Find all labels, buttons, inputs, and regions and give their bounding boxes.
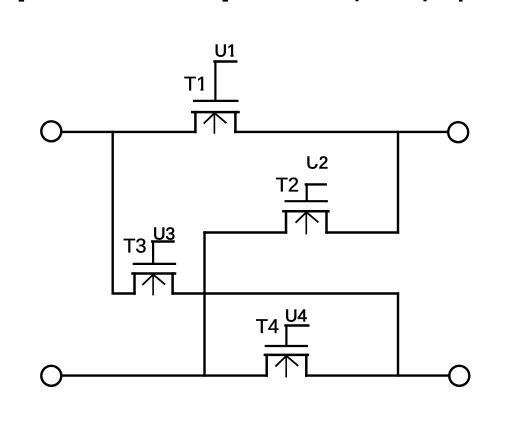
svg-text:U3: U3 — [153, 224, 175, 244]
svg-text:U4: U4 — [285, 306, 307, 326]
svg-text:T1: T1 — [184, 74, 207, 96]
svg-text:U1: U1 — [215, 41, 237, 61]
svg-text:T2: T2 — [276, 175, 299, 197]
svg-text:T4: T4 — [256, 316, 279, 338]
svg-text:T3: T3 — [123, 236, 146, 258]
